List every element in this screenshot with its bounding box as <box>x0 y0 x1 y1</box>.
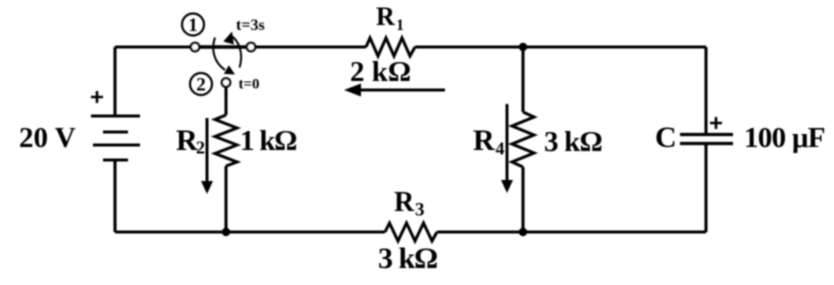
svg-text:R: R <box>176 124 198 157</box>
svg-text:2: 2 <box>196 138 205 158</box>
svg-text:1 kΩ: 1 kΩ <box>240 125 296 157</box>
svg-text:t=3s: t=3s <box>236 17 265 34</box>
svg-text:2: 2 <box>196 75 206 96</box>
svg-text:4: 4 <box>496 139 505 159</box>
svg-text:2 kΩ: 2 kΩ <box>350 56 411 88</box>
svg-text:R: R <box>473 124 495 157</box>
svg-text:t=0: t=0 <box>239 77 260 93</box>
svg-text:C: C <box>655 121 677 154</box>
svg-text:1: 1 <box>188 15 198 36</box>
svg-text:R: R <box>394 187 415 218</box>
svg-text:3 kΩ: 3 kΩ <box>378 242 437 275</box>
svg-text:1: 1 <box>396 17 404 34</box>
svg-text:3: 3 <box>415 200 425 221</box>
svg-text:R: R <box>376 2 395 31</box>
svg-text:100 μF: 100 μF <box>744 122 825 154</box>
svg-text:20 V: 20 V <box>19 122 76 154</box>
svg-text:3 kΩ: 3 kΩ <box>544 126 602 158</box>
